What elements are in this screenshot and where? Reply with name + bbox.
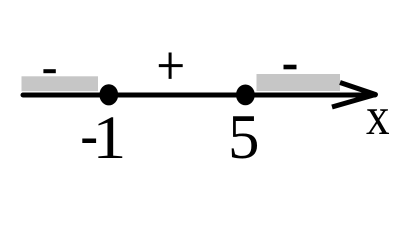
number line axis — [23, 93, 375, 98]
plus sign over middle region — [159, 53, 183, 79]
point at -1 (closed dot) — [99, 84, 118, 105]
svg-text:x: x — [366, 86, 390, 146]
svg-text:1: 1 — [92, 103, 126, 171]
right negative-region highlight rectangle — [257, 74, 341, 91]
minus sign over left region — [43, 69, 55, 73]
left negative-region highlight rectangle — [22, 76, 99, 91]
minus sign over right region — [284, 65, 297, 70]
point at 5 (closed dot) — [236, 85, 255, 106]
arrowhead chevron — [332, 83, 376, 108]
label -1 minus part — [82, 139, 96, 144]
svg-text:5: 5 — [228, 102, 260, 172]
